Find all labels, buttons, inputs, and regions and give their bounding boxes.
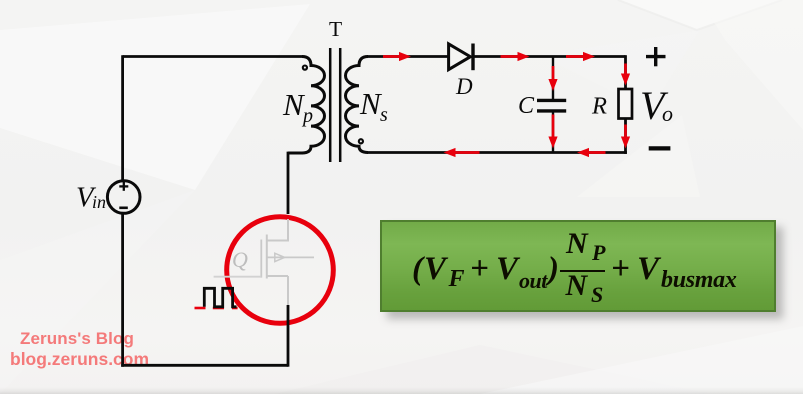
svg-text:Q: Q xyxy=(232,247,248,272)
svg-text:p: p xyxy=(301,105,313,127)
wire: left rail upper xyxy=(121,55,124,180)
svg-text:s: s xyxy=(380,104,388,126)
wire: top-left rail xyxy=(123,55,302,58)
watermark Zeruns's Blog xyxy=(20,329,220,349)
svg-text:D: D xyxy=(455,74,473,99)
svg-text:o: o xyxy=(662,101,673,126)
wire: resistor branch upper xyxy=(624,55,627,89)
svg-text:C: C xyxy=(518,93,535,119)
current arrow a2 (after diode) xyxy=(501,52,530,61)
svg-text:T: T xyxy=(329,17,342,41)
wire: bottom-left rail xyxy=(121,364,288,367)
current arrow a3 (after C junction) xyxy=(566,52,595,61)
svg-text:in: in xyxy=(92,192,106,212)
wire: drain to primary xyxy=(288,153,303,214)
diode D xyxy=(449,44,473,71)
gate pulse waveform xyxy=(195,288,238,308)
output plus terminal xyxy=(646,47,666,66)
watermark blog.zeruns.com xyxy=(10,349,230,370)
resistor R body xyxy=(619,89,633,119)
current arrow a7 (below C) xyxy=(548,115,557,149)
formula green box xyxy=(380,220,776,312)
capacitor C branch wire lower xyxy=(552,113,554,153)
transformer secondary winding Ns xyxy=(346,57,369,153)
capacitor C branch wire upper xyxy=(552,57,554,100)
svg-text:R: R xyxy=(591,93,607,120)
current arrow a4 (down into C) xyxy=(548,66,557,91)
primary polarity dot xyxy=(303,66,307,70)
secondary polarity dot xyxy=(359,139,363,143)
current arrow a5 (down into R) xyxy=(621,64,630,86)
red highlight circle around Q xyxy=(227,217,334,324)
capacitor C plates xyxy=(537,99,566,102)
transformer core xyxy=(329,48,332,162)
current arrow a6 (below R) xyxy=(621,125,630,149)
bottom edge shadow xyxy=(0,387,803,394)
wire: source to bottom rail xyxy=(287,305,290,367)
output minus terminal xyxy=(649,146,671,150)
wire: diode to resistor corner xyxy=(474,55,626,58)
voltage source Vin xyxy=(107,181,140,214)
transistor Q (greyed MOSFET symbol) xyxy=(214,219,314,306)
current arrow a1 (secondary top) xyxy=(383,52,411,61)
wire: resistor branch lower xyxy=(624,119,627,154)
wire: bottom rail right xyxy=(367,151,627,154)
transformer T primary winding Np xyxy=(288,57,325,154)
current arrow a9 (bottom rail left-point near R) xyxy=(577,148,606,157)
wire: left rail lower xyxy=(121,213,124,366)
current arrow a8 (bottom rail left-point) xyxy=(444,148,480,157)
wire: secondary top to diode xyxy=(367,55,449,58)
